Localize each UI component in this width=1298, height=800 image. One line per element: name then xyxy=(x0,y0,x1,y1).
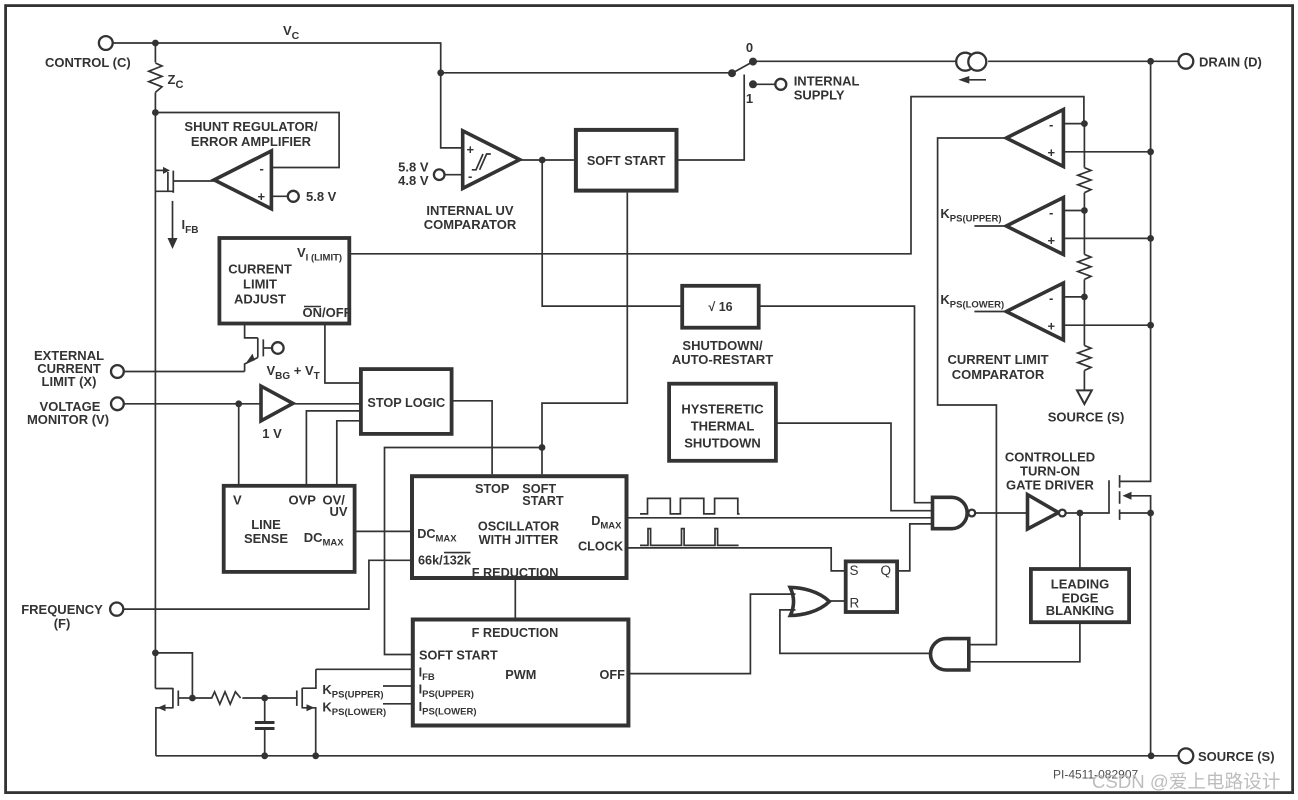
svg-text:+: + xyxy=(467,142,475,157)
svg-text:-: - xyxy=(1049,117,1053,132)
transistor M4 current limit adjust MOSFET xyxy=(245,324,320,383)
wire soft start branch to F reduction block xyxy=(385,448,543,655)
wire PWM OFF to OR input 1 xyxy=(628,594,795,674)
node chain top xyxy=(1081,120,1088,127)
svg-text:CLOCK: CLOCK xyxy=(578,540,624,554)
svg-text:LIMIT (X): LIMIT (X) xyxy=(42,374,97,389)
node gate branch to LEB xyxy=(1077,510,1084,517)
svg-text:5.8 V: 5.8 V xyxy=(306,189,337,204)
wire bottom source rail xyxy=(156,755,1179,757)
wire source down to rail xyxy=(1150,513,1152,756)
wire sqrt16 output to NAND input 1 xyxy=(759,306,933,503)
capacitor C1 xyxy=(255,698,275,756)
svg-text:SOFT START: SOFT START xyxy=(587,154,666,168)
wire OR output to latch R xyxy=(829,600,845,602)
op-amp U4 current limit comparator bottom xyxy=(1006,283,1063,340)
op-amp 1V buffer xyxy=(261,386,293,421)
block STOP LOGIC xyxy=(361,369,452,434)
current source CS1 xyxy=(956,53,986,84)
wire driver output to MOSFET gate xyxy=(1066,480,1109,513)
wire soft start output up to switch contact 1 xyxy=(679,75,745,161)
wire U4 - input to chain xyxy=(1063,296,1084,298)
wire from Vc corner down to UV comparator + input xyxy=(441,73,463,148)
wire NAND output to gate driver xyxy=(975,512,1027,514)
svg-text:0: 0 xyxy=(746,40,753,55)
node capacitor junction xyxy=(261,695,268,702)
wire OV/UV from line sense to stop logic xyxy=(337,421,361,486)
wire soft start box bottom to osc soft start input xyxy=(542,193,627,475)
svg-text:MONITOR (V): MONITOR (V) xyxy=(27,412,109,427)
svg-text:V: V xyxy=(233,493,242,508)
wire U2 + input to drain sense line xyxy=(1063,151,1150,153)
svg-text:√ 16: √ 16 xyxy=(708,300,732,314)
transistor M2 mirror left xyxy=(155,688,192,756)
node rail M3 xyxy=(312,752,319,759)
wire UV comparator output down to sqrt16 xyxy=(542,160,682,306)
block F REDUCTION PWM xyxy=(413,620,629,726)
svg-text:OFF: OFF xyxy=(600,668,626,682)
svg-text:START: START xyxy=(522,494,564,508)
resistor R2 chain top xyxy=(1078,124,1091,193)
arrow IFB current annotation xyxy=(168,201,199,249)
wire UV comparator output to soft start box xyxy=(520,159,574,161)
svg-text:COMPARATOR: COMPARATOR xyxy=(424,217,517,232)
wire buffer out to stop logic xyxy=(293,403,361,405)
wire F to oscillator 66k input xyxy=(123,560,410,609)
terminal FREQUENCY (F) xyxy=(21,602,123,631)
block LEADING EDGE BLANKING xyxy=(1031,569,1129,622)
svg-text:-: - xyxy=(468,169,472,184)
svg-text:STOP: STOP xyxy=(475,482,510,496)
svg-text:INTERNAL: INTERNAL xyxy=(794,74,860,89)
wire NAND input 4 from latch Q xyxy=(897,524,932,571)
block sqrt16 shutdown counter xyxy=(682,286,759,328)
svg-text:ADJUST: ADJUST xyxy=(234,292,286,307)
wire drain top line from switch contact 0 xyxy=(753,60,957,62)
wire U4 + input to drain sense line xyxy=(1063,324,1150,326)
wire thermal shutdown to NAND input 2 xyxy=(776,423,933,511)
node soft start branch xyxy=(539,444,546,451)
svg-text:4.8 V: 4.8 V xyxy=(398,173,429,188)
node source junction xyxy=(1147,510,1154,517)
wire from Vc corner to switch pivot xyxy=(441,72,732,74)
svg-text:TURN-ON: TURN-ON xyxy=(1020,464,1080,479)
waveform CLOCK spikes xyxy=(640,529,739,546)
terminal SOURCE (S) xyxy=(1179,748,1275,764)
wire IPS(UPPER) stub xyxy=(383,685,413,687)
svg-text:SOURCE (S): SOURCE (S) xyxy=(1048,410,1125,425)
svg-text:COMPARATOR: COMPARATOR xyxy=(952,367,1045,382)
wire AND output to OR input 2 xyxy=(780,610,929,654)
wire DMAX output to NAND input 3 xyxy=(627,517,933,519)
wire OVP from line sense to stop logic xyxy=(306,411,361,486)
node V branch xyxy=(235,400,242,407)
switch SW internal supply xyxy=(728,40,757,106)
node chain mid1 xyxy=(1081,207,1088,214)
wire shunt feedback loop to error amp - input xyxy=(155,113,339,168)
svg-text:CSDN @爱上电路设计: CSDN @爱上电路设计 xyxy=(1092,771,1280,792)
svg-text:FREQUENCY: FREQUENCY xyxy=(21,602,103,617)
wire STOP output to oscillator xyxy=(452,401,493,474)
wire + input to 5.8V terminal xyxy=(271,195,287,197)
resistor R3 chain mid xyxy=(1078,193,1091,280)
svg-text:THERMAL: THERMAL xyxy=(691,419,755,434)
svg-text:SOURCE (S): SOURCE (S) xyxy=(1198,749,1275,764)
resistor ZC xyxy=(149,63,162,92)
terminal 5.8V/4.8V threshold xyxy=(398,160,444,189)
node soft start output junction xyxy=(539,157,546,164)
svg-text:1: 1 xyxy=(746,91,753,106)
node Vc junction on control line xyxy=(152,40,159,47)
resistor R4 chain bottom xyxy=(1078,279,1091,390)
svg-text:SHUNT REGULATOR/: SHUNT REGULATOR/ xyxy=(184,119,318,134)
node drain junction xyxy=(1147,58,1154,65)
svg-text:HYSTERETIC: HYSTERETIC xyxy=(681,402,764,417)
svg-text:OVP: OVP xyxy=(289,493,317,508)
svg-text:AUTO-RESTART: AUTO-RESTART xyxy=(672,352,773,367)
svg-text:WITH JITTER: WITH JITTER xyxy=(479,533,559,547)
svg-text:SUPPLY: SUPPLY xyxy=(794,88,845,103)
svg-text:STOP LOGIC: STOP LOGIC xyxy=(367,396,445,410)
wire ON/OFF to stop logic xyxy=(325,324,361,384)
block LINE SENSE xyxy=(224,486,355,572)
wire LEB input from gate node xyxy=(1079,513,1081,569)
wire current source to drain xyxy=(988,60,1179,62)
svg-text:CONTROL (C): CONTROL (C) xyxy=(45,55,131,70)
gate OR U7 xyxy=(790,587,829,615)
svg-text:LEADING: LEADING xyxy=(1051,577,1110,592)
node on drain line xyxy=(1147,148,1154,155)
terminal INTERNAL SUPPLY xyxy=(775,74,859,103)
node rail cap xyxy=(261,752,268,759)
svg-text:DRAIN (D): DRAIN (D) xyxy=(1199,55,1262,70)
wire Vc from CONTROL to corner xyxy=(113,43,441,73)
node rail output source xyxy=(1148,752,1155,759)
terminal DRAIN (D) xyxy=(1179,54,1262,70)
svg-text:+: + xyxy=(258,189,266,204)
wire U2 - input to resistor chain xyxy=(1063,123,1084,125)
resistor R5 xyxy=(192,692,264,704)
wire VI(LIMIT) to current limit comparator xyxy=(349,97,1084,254)
svg-text:SOFT START: SOFT START xyxy=(419,649,498,663)
wire CLOCK output to latch S input xyxy=(627,548,846,571)
wire U3 - input to chain xyxy=(1063,210,1084,212)
transistor M3 mirror right xyxy=(297,669,316,756)
node on drain line 2 xyxy=(1147,235,1154,242)
op-amp U5 internal UV comparator xyxy=(463,131,520,189)
svg-text:CURRENT LIMIT: CURRENT LIMIT xyxy=(947,352,1048,367)
node on drain line 3 xyxy=(1147,322,1154,329)
gate AND U8 mirrored xyxy=(931,639,969,670)
block HYSTERETIC THERMAL SHUTDOWN xyxy=(669,384,776,461)
terminal 5.8 V xyxy=(288,191,299,202)
svg-text:UV: UV xyxy=(330,504,348,519)
node shunt junction xyxy=(152,109,159,116)
wire X to M4 source xyxy=(124,371,245,373)
svg-text:S: S xyxy=(850,563,859,578)
svg-text:Q: Q xyxy=(881,563,892,578)
op-amp U3 current limit comparator middle xyxy=(1006,198,1063,255)
wire LEB output to AND gate xyxy=(969,622,1080,662)
wire IFB input to PWM xyxy=(316,668,413,670)
block OSCILLATOR WITH JITTER xyxy=(412,476,627,580)
svg-text:+: + xyxy=(1048,233,1056,248)
svg-text:GATE DRIVER: GATE DRIVER xyxy=(1006,478,1094,493)
svg-text:LINE: LINE xyxy=(251,517,281,532)
wire DCMAX to oscillator xyxy=(355,530,410,532)
waveform DMAX square wave xyxy=(640,498,740,514)
terminal EXTERNAL CURRENT LIMIT (X) xyxy=(34,348,124,389)
svg-text:CONTROLLED: CONTROLLED xyxy=(1005,450,1095,465)
transistor M1 shunt MOSFET xyxy=(155,167,214,193)
op-amp U1 error amplifier (points left) xyxy=(214,151,271,209)
node chain mid2 xyxy=(1081,294,1088,301)
op-amp U2 current limit comparator top xyxy=(1006,110,1063,167)
wire switch contact 1 to internal supply terminal xyxy=(753,83,775,85)
wire mirror gate link xyxy=(155,653,192,698)
ground SOURCE arrow xyxy=(1048,390,1125,424)
svg-text:LIMIT: LIMIT xyxy=(243,277,277,292)
node at Vc corner branch xyxy=(437,69,444,76)
svg-text:+: + xyxy=(1048,319,1056,334)
op-amp U9 controlled turn-on gate driver xyxy=(1028,495,1066,529)
svg-text:-: - xyxy=(1049,205,1053,220)
flip-flop SR latch xyxy=(846,561,897,612)
wire main left vertical xyxy=(154,93,156,689)
wire U3 output stub KPS(UPPER) xyxy=(974,225,1006,227)
wire IPS(LOWER) stub xyxy=(383,703,413,705)
svg-text:R: R xyxy=(850,596,860,611)
terminal VOLTAGE MONITOR (V) xyxy=(27,397,124,427)
node mirror gate junction xyxy=(189,695,196,702)
svg-text:1 V: 1 V xyxy=(262,426,282,441)
svg-text:F REDUCTION: F REDUCTION xyxy=(472,626,559,640)
svg-text:SHUTDOWN: SHUTDOWN xyxy=(684,436,761,451)
svg-text:-: - xyxy=(1049,291,1053,306)
svg-text:-: - xyxy=(260,161,264,176)
wire osc F reduction to PWM block xyxy=(514,578,516,620)
svg-text:OSCILLATOR: OSCILLATOR xyxy=(478,520,559,534)
wire V branch down to line sense xyxy=(238,404,240,486)
node frequency mirror junction xyxy=(152,650,159,657)
block CURRENT LIMIT ADJUST xyxy=(219,238,351,324)
svg-text:INTERNAL UV: INTERNAL UV xyxy=(426,203,513,218)
wire drain vertical to output MOSFET xyxy=(1120,61,1150,481)
wire U3 + input to drain sense line xyxy=(1063,237,1150,239)
svg-text:ERROR AMPLIFIER: ERROR AMPLIFIER xyxy=(191,134,312,149)
svg-text:BLANKING: BLANKING xyxy=(1046,603,1115,618)
svg-text:+: + xyxy=(1048,145,1056,160)
terminal CONTROL (C) xyxy=(45,36,131,70)
wire threshold to UV comparator - input xyxy=(445,174,463,176)
wire V to 1V buffer xyxy=(124,403,261,405)
gate NAND U6 xyxy=(933,497,976,528)
wire U4 output stub KPS(LOWER) xyxy=(974,311,1006,313)
wire control vertical upper segment xyxy=(154,43,156,63)
svg-text:(F): (F) xyxy=(54,616,71,631)
svg-text:66k/132k: 66k/132k xyxy=(418,554,472,568)
svg-text:PWM: PWM xyxy=(505,668,536,682)
transistor Q1 output MOSFET xyxy=(1120,475,1151,520)
svg-text:F REDUCTION: F REDUCTION xyxy=(472,566,559,580)
wire U2 output to AND gate (long route) xyxy=(938,138,1007,645)
block SOFT START xyxy=(576,130,677,191)
svg-text:SHUTDOWN/: SHUTDOWN/ xyxy=(682,338,763,353)
wire capacitor node to M3 gate xyxy=(265,697,297,699)
svg-text:SENSE: SENSE xyxy=(244,531,288,546)
svg-text:CURRENT: CURRENT xyxy=(228,262,292,277)
